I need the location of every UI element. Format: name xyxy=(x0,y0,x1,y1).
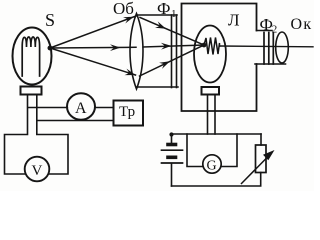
battery cell 1 short plate xyxy=(168,143,176,147)
svg-text:A: A xyxy=(75,100,87,117)
lower wire to Tr xyxy=(38,120,114,122)
bottom wire xyxy=(172,173,261,187)
ray bottom-left xyxy=(50,48,136,75)
main top wire battery to rheostat xyxy=(172,133,262,135)
wire A to Tr xyxy=(95,107,114,109)
transformer Tr box xyxy=(114,101,144,126)
svg-text:G: G xyxy=(207,159,217,174)
rheostat top lead xyxy=(260,134,262,145)
rheostat body xyxy=(256,145,267,173)
voltmeter V xyxy=(25,157,50,182)
svg-text:2: 2 xyxy=(272,24,278,36)
tube end line xyxy=(272,33,274,64)
lamp L envelope xyxy=(194,26,226,83)
svg-text:S: S xyxy=(45,10,55,30)
svg-text:Ф: Ф xyxy=(157,0,170,18)
svg-text:Ок: Ок xyxy=(291,16,313,33)
svg-text:V: V xyxy=(32,163,43,179)
lamp S envelope xyxy=(13,28,52,85)
lamp L filament zigzag xyxy=(204,38,220,55)
ray origin dot xyxy=(48,46,53,51)
optical axis to eyepiece xyxy=(220,45,314,48)
wire S right lead xyxy=(37,95,68,175)
rheostat arrow xyxy=(242,156,270,184)
lamp L base xyxy=(202,87,220,95)
arrowhead middle-right ray xyxy=(161,43,172,50)
objective lens Ob xyxy=(130,14,143,90)
battery bottom lead xyxy=(171,164,173,186)
ray middle-right xyxy=(143,45,204,47)
G loop right xyxy=(221,134,237,167)
eyepiece Ok lens xyxy=(276,32,289,63)
battery cell 2 long plate xyxy=(162,162,183,164)
svg-text:Тр: Тр xyxy=(119,104,135,120)
tube bottom wall xyxy=(255,63,286,65)
housing top line lens to F1 xyxy=(137,14,178,16)
tube top wall xyxy=(257,30,273,32)
wire S left lead xyxy=(5,95,28,175)
photometer box xyxy=(182,4,257,112)
converging point blob xyxy=(202,43,207,48)
wire lamp L right lead xyxy=(214,95,216,135)
filter F2 line 1 xyxy=(263,33,265,65)
arrowhead top-left ray xyxy=(123,17,134,24)
arrowhead top-right ray xyxy=(155,21,166,28)
lamp S filament xyxy=(22,37,39,76)
ray top-left xyxy=(50,16,136,48)
wire lamp L left lead xyxy=(207,95,209,135)
battery cell 2 short plate xyxy=(168,156,176,160)
arrowhead middle-left ray xyxy=(110,44,121,51)
battery top lead xyxy=(171,134,173,143)
lamp S base xyxy=(21,87,42,95)
svg-text:Об: Об xyxy=(113,0,134,18)
arrowhead bottom-left ray xyxy=(125,69,136,76)
svg-text:Л: Л xyxy=(228,11,240,30)
arrowhead bottom-right ray xyxy=(159,61,170,69)
G loop left xyxy=(187,134,203,167)
ray middle-left xyxy=(50,46,136,49)
svg-text:1: 1 xyxy=(171,8,177,20)
ray top-right converging xyxy=(140,18,204,46)
battery junction dot xyxy=(169,132,173,136)
ray bottom-right converging xyxy=(140,45,205,76)
wire to ammeter xyxy=(28,107,67,109)
ammeter A xyxy=(67,93,95,120)
housing bottom line lens to F1 xyxy=(137,86,179,88)
battery cell 1 long plate xyxy=(162,149,183,151)
filter F1 line 2 xyxy=(176,15,178,88)
filter F2 line 2 xyxy=(268,33,270,65)
galvanometer G xyxy=(203,155,221,173)
filter F1 line 1 xyxy=(171,15,173,88)
